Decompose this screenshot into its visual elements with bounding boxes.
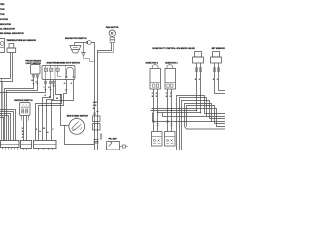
- svg-text:FR. SET: FR. SET: [109, 139, 118, 141]
- solenoid valve 2 wires: [214, 63, 220, 94]
- harness exit wire 1: [219, 90, 226, 92]
- harness link wire 7: [151, 110, 197, 112]
- svg-text:G: G: [39, 131, 41, 133]
- side stand switch: [69, 117, 85, 135]
- fan motor M: [109, 30, 115, 36]
- harness link wire 8: [158, 112, 201, 114]
- svg-text:IGNITION SWITCH: IGNITION SWITCH: [14, 100, 33, 102]
- injector 4: [165, 65, 176, 89]
- injector 3 connector bottom: [152, 132, 163, 147]
- fan switch ground: [81, 43, 85, 56]
- svg-text:M: M: [111, 31, 114, 35]
- svg-text:W: W: [43, 128, 45, 130]
- injector 4 wire labels: [166, 93, 172, 98]
- harness Z wire 1: [177, 96, 226, 151]
- svg-text:Y: Y: [43, 87, 45, 89]
- injector 3 wire labels: [152, 93, 158, 98]
- solenoid valve 1: [193, 52, 204, 64]
- starter/engine stop switch box: [42, 66, 75, 80]
- connector block 1: [1, 141, 20, 150]
- stop switch wires to harness: [0, 85, 62, 141]
- fr sensor box: [107, 142, 120, 151]
- small connector mark: [100, 134, 102, 139]
- svg-text:R: R: [71, 83, 73, 85]
- injector 3: [150, 65, 161, 89]
- harness Z wire 3: [182, 101, 226, 151]
- svg-text:Bl: Bl: [93, 108, 95, 110]
- fan switch sensor bolt: [86, 41, 91, 45]
- injector 4 wires: [168, 89, 172, 132]
- front brake light switch: [31, 65, 41, 79]
- bus junction dots: [153, 108, 202, 114]
- svg-text:G: G: [64, 83, 66, 85]
- svg-text:Bl: Bl: [56, 98, 58, 100]
- stop switch contact 1: [44, 66, 47, 80]
- fan motor switch thermo funnel: [70, 43, 81, 53]
- diagonal lead: [0, 113, 5, 119]
- harness hairpin wire 10: [163, 113, 207, 117]
- harness pair connector B: [93, 124, 101, 131]
- svg-text:G: G: [45, 95, 47, 97]
- harness pair connector A: [93, 116, 101, 122]
- svg-text:TOR: TOR: [0, 9, 5, 11]
- front brake light switch label: [26, 60, 42, 66]
- pin wire labels: [31, 80, 73, 100]
- svg-text:FAN MOTOR SWITCH: FAN MOTOR SWITCH: [65, 37, 87, 40]
- injector 3 wires: [154, 89, 158, 132]
- svg-text:SIDE STAND SWITCH: SIDE STAND SWITCH: [67, 114, 89, 117]
- svg-text:R: R: [36, 129, 38, 131]
- stop switch contact 3: [56, 66, 61, 77]
- svg-text:STARTER/ENGINE STOP SWITCH: STARTER/ENGINE STOP SWITCH: [47, 62, 81, 65]
- svg-text:RN SIGNAL INDICATOR: RN SIGNAL INDICATOR: [0, 32, 24, 35]
- side stand switch wire: [65, 126, 95, 145]
- harness corner wire 4b: [185, 127, 226, 130]
- svg-text:AL INDICATOR: AL INDICATOR: [0, 28, 15, 31]
- connector at left edge: [0, 39, 5, 53]
- svg-text:R: R: [48, 87, 50, 89]
- svg-text:G R: G R: [93, 105, 97, 107]
- harness Z wire 4: [185, 104, 226, 127]
- solenoid valve 2: [211, 52, 222, 64]
- fan switch wire to harness: [75, 43, 95, 151]
- left edge harness verticals: [2, 79, 3, 141]
- small link wire near ground: [84, 56, 95, 62]
- svg-text:FAN MOTOR: FAN MOTOR: [106, 26, 119, 29]
- stop switch contact 2: [50, 66, 53, 80]
- ignition switch wires: [22, 116, 29, 141]
- starter switch horseshoe: [66, 67, 74, 77]
- connector block 2: [21, 141, 32, 151]
- ignition wire labels: [22, 128, 24, 139]
- junction dots row: [33, 83, 62, 96]
- side stand vertical feed: [61, 95, 69, 126]
- temperature air sensor: [7, 44, 16, 53]
- stop switch pins below: [45, 80, 56, 87]
- inline marks on injector pairs: [153, 121, 173, 126]
- harness pair ticks: [93, 112, 99, 115]
- svg-text:Bl: Bl: [46, 132, 48, 134]
- svg-text:Y: Y: [52, 129, 54, 131]
- harness hairpin wire 9: [153, 113, 212, 122]
- fan motor wires: [98, 42, 114, 150]
- fr sensor plug: [120, 145, 129, 148]
- svg-text:ICATOR: ICATOR: [0, 18, 8, 21]
- solenoid valve 1 wires: [196, 63, 202, 113]
- svg-text:JET SENSOR: JET SENSOR: [211, 48, 225, 50]
- svg-text:NDICATOR: NDICATOR: [0, 23, 11, 26]
- harness Z wire 6: [152, 109, 226, 127]
- connector block 3: [34, 141, 57, 151]
- svg-text:INJECTOR 3: INJECTOR 3: [146, 63, 159, 65]
- harness exit wire 2: [215, 93, 226, 95]
- ignition switch: [20, 103, 31, 116]
- svg-text:W: W: [22, 134, 24, 136]
- front brake switch wires to harness: [5, 78, 38, 141]
- harness pair labels: [93, 102, 97, 110]
- harness Z wire 2: [180, 98, 226, 151]
- legend label list top-left: [0, 4, 24, 35]
- svg-text:TER: TER: [0, 4, 5, 6]
- block 3 wire labels: [36, 128, 55, 134]
- harness Z wire 5: [187, 106, 226, 127]
- svg-text:Bl: Bl: [22, 131, 24, 133]
- temperature sensor wires: [0, 53, 13, 82]
- svg-text:INJECTOR 4: INJECTOR 4: [165, 62, 178, 65]
- injector 4 connector bottom: [165, 132, 176, 147]
- svg-text:NOSE DUCT CONTROL SOLENOID VAL: NOSE DUCT CONTROL SOLENOID VALVE: [152, 47, 195, 50]
- svg-text:G/W: G/W: [93, 102, 97, 104]
- starter switch wires to harness: [39, 80, 74, 141]
- harness pair junction marks: [94, 140, 99, 144]
- svg-text:TOR: TOR: [0, 14, 5, 16]
- svg-text:TEMPERATURE AIR SENSOR: TEMPERATURE AIR SENSOR: [6, 39, 36, 42]
- solenoid wire labels: [195, 79, 219, 81]
- fan motor connector: [110, 37, 115, 42]
- left edge nested corners: [0, 110, 16, 141]
